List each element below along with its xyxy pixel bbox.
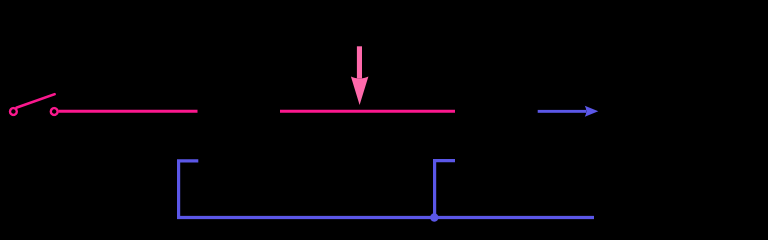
node: junction dot on bottom bus	[430, 213, 438, 221]
switch SW1 right contact circle	[51, 108, 58, 115]
disturbance arrow (pink, pointing down)	[351, 46, 369, 105]
wire: feedback path right branch (stub, riser down to junction)	[435, 161, 455, 218]
wire: pink signal line segment 2 (between blocks, under disturbance arrow)	[280, 110, 455, 113]
switch SW1 lever arm	[17, 94, 55, 107]
output arrow (blue, pointing right)	[538, 106, 599, 117]
wire: pink signal line segment 1 (switch to first block)	[59, 110, 198, 113]
switch SW1 left contact circle	[10, 108, 17, 115]
wire: feedback bottom bus	[177, 216, 594, 219]
wire: feedback path left branch (stub, riser down to bottom bus)	[179, 161, 199, 218]
